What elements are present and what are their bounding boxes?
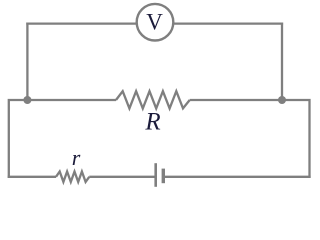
wire bottom-right segment (165, 176, 311, 178)
wire left vertical (voltmeter branch) (26, 23, 28, 101)
voltmeter V circle (137, 4, 174, 41)
wire middle-right horizontal with outer right corner (190, 100, 310, 178)
resistor r zigzag (56, 172, 89, 182)
node right junction dot (278, 96, 286, 104)
svg-text:R: R (144, 109, 160, 136)
wire top-left horizontal (26, 22, 140, 24)
node left junction dot (23, 96, 31, 104)
svg-text:r: r (72, 145, 81, 170)
wire bottom-left segment (8, 176, 56, 178)
battery cell short plate (162, 169, 165, 184)
wire right vertical (voltmeter branch) (281, 23, 283, 101)
wire top-right horizontal (170, 22, 283, 24)
battery cell long plate (154, 163, 157, 187)
wire middle-left horizontal with outer left corner (9, 100, 116, 178)
svg-text:V: V (146, 10, 163, 35)
resistor R zigzag (116, 91, 190, 108)
wire bottom middle segment (89, 176, 154, 178)
